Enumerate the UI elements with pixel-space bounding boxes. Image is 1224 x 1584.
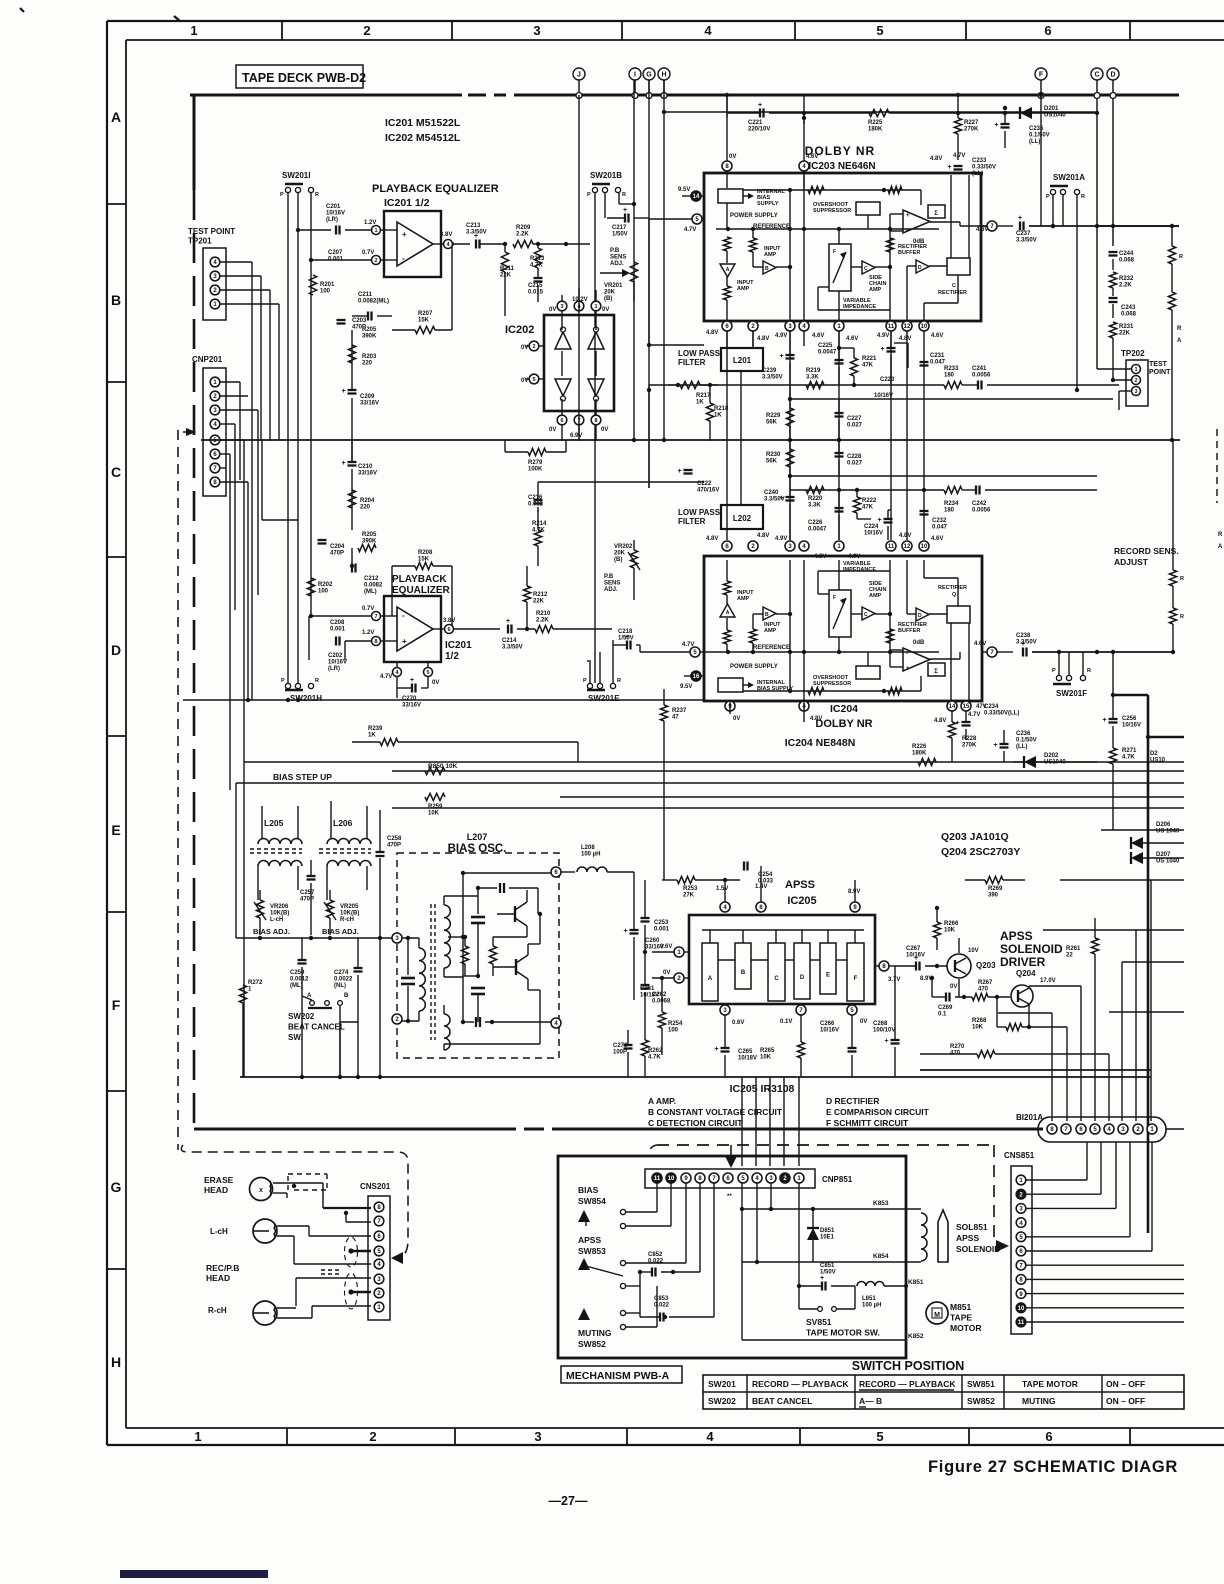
svg-text:EQUALIZER: EQUALIZER [392,585,451,596]
IC203 dolby box [704,173,981,321]
svg-text:BIAS ADJ.: BIAS ADJ. [253,927,290,936]
svg-text:C: C [864,266,868,272]
wire APSS out [894,966,896,1020]
svg-text:DRIVER: DRIVER [1000,955,1046,969]
svg-text:CNS201: CNS201 [360,1182,391,1191]
IC203 C rectifier box [947,258,970,275]
svg-text:R279: R279 [528,460,543,466]
svg-text:CNP851: CNP851 [822,1175,853,1184]
arrow into CNS201 pin5 [391,1252,403,1264]
svg-text:IC202: IC202 [505,324,534,336]
page border outer frame [107,20,1224,22]
svg-text:POINT: POINT [1149,369,1171,376]
svg-text:**: ** [727,1194,732,1200]
svg-text:0.1/50V: 0.1/50V [1029,133,1050,139]
svg-text:3.3K: 3.3K [806,375,819,381]
svg-text:R: R [1218,532,1223,538]
svg-text:470P: 470P [330,551,344,557]
svg-text:SW853: SW853 [578,1246,606,1256]
dashed shield box heads [181,1145,408,1257]
row ticks left [107,203,126,205]
svg-text:3.7V: 3.7V [888,977,900,983]
svg-text:IMPEDANCE: IMPEDANCE [843,304,876,310]
svg-text:4.9V: 4.9V [877,333,889,339]
svg-text:11: 11 [1018,1320,1025,1326]
node D top terminal [1107,68,1119,80]
node C top terminal [1091,68,1103,80]
svg-text:27K: 27K [683,893,695,899]
svg-text:4.6V: 4.6V [976,227,988,233]
svg-text:C267: C267 [906,946,921,952]
svg-text:C227: C227 [847,416,862,422]
svg-text:+: + [758,102,762,109]
svg-text:10/18V: 10/18V [738,1056,757,1062]
svg-text:4.8V: 4.8V [757,533,769,539]
svg-text:E: E [826,973,830,979]
inductor L201 box [721,348,763,371]
svg-text:R217: R217 [696,393,711,399]
svg-text:VR205: VR205 [340,904,359,910]
connector CNS851 [1011,1166,1032,1334]
svg-text:+: + [342,388,346,395]
svg-text:0.0047: 0.0047 [808,527,827,533]
svg-text:TEST: TEST [1149,361,1168,368]
svg-text:180K: 180K [912,751,927,757]
svg-text:10: 10 [1018,1306,1025,1312]
svg-text:1K: 1K [714,413,722,419]
IC203 variable impedance loop [818,286,829,288]
svg-text:F: F [1039,72,1044,79]
svg-text:+: + [402,637,407,646]
svg-text:R231: R231 [1119,324,1134,330]
svg-text:C: C [774,976,779,982]
svg-text:DOLBY NR: DOLBY NR [815,718,872,730]
svg-text:4.6V: 4.6V [931,536,943,542]
wire vertical G bus [648,80,650,488]
svg-text:+: + [780,495,784,502]
node H top terminal [658,68,670,80]
wire left col connects [648,219,650,345]
wire bus horizontals above BI201A [1043,929,1184,931]
svg-text:PLAYBACK EQUALIZER: PLAYBACK EQUALIZER [372,183,499,195]
svg-text:4: 4 [704,23,712,38]
svg-text:R266: R266 [944,921,959,927]
svg-text:11: 11 [888,324,895,330]
svg-text:100K: 100K [528,467,543,473]
wire IC203 pin stems down [726,331,728,346]
svg-text:+: + [623,207,627,214]
svg-text:IC205: IC205 [787,895,816,907]
svg-text:C253: C253 [654,920,669,926]
svg-text:33/16V: 33/16V [360,401,379,407]
bias osc cap C mid top [477,888,479,914]
IC204 dolby box [704,556,982,701]
op-amp IC201a triangle [397,222,433,266]
wire F vertical [1040,95,1042,226]
svg-text:C240: C240 [764,490,779,496]
wire bus y226 right [1097,225,1179,227]
svg-text:TAPE: TAPE [950,1313,972,1323]
svg-text:RECORD SENS.: RECORD SENS. [1114,546,1179,556]
svg-text:6.9V: 6.9V [570,433,582,439]
svg-text:C: C [864,612,868,618]
IC202 box [544,315,614,411]
svg-text:R239: R239 [368,726,383,732]
svg-text:C228: C228 [847,454,862,460]
svg-text:0.047: 0.047 [932,525,948,531]
bias osc vertical 463 [462,873,464,1022]
svg-text:C852: C852 [648,1252,663,1258]
svg-text:R-cH: R-cH [208,1306,227,1315]
svg-text:+: + [1103,717,1107,724]
svg-text:R: R [1177,326,1182,332]
svg-text:+: + [506,618,510,625]
svg-text:B: B [111,292,121,308]
svg-text:MUTING: MUTING [1022,1396,1056,1406]
svg-text:C268: C268 [873,1021,888,1027]
svg-text:F: F [112,997,121,1013]
svg-text:+: + [780,353,784,360]
IC204 right verticals [950,623,952,701]
svg-text:LOW PASS: LOW PASS [678,508,721,517]
svg-text:(B): (B) [604,296,612,302]
svg-text:IC203 NE646N: IC203 NE646N [808,161,875,172]
wire mid connects to bias rows [577,742,579,762]
svg-text:R: R [1087,668,1091,674]
wire solenoid drop [905,1262,907,1340]
switch SW852 [620,1310,625,1315]
svg-text:0.068: 0.068 [1119,258,1135,264]
svg-text:5: 5 [532,377,535,383]
svg-text:-: - [906,228,908,234]
connector BI201A [1038,1117,1166,1142]
svg-text:3: 3 [534,1429,541,1444]
svg-text:C254: C254 [758,872,773,878]
svg-text:4.8V: 4.8V [757,336,769,342]
left dashed shield line [177,430,179,1150]
svg-text:4.7V: 4.7V [684,227,696,233]
svg-text:VR206: VR206 [270,904,289,910]
svg-text:SENS: SENS [610,255,626,261]
svg-text:0V: 0V [663,970,670,976]
svg-text:100 µH: 100 µH [581,852,600,858]
svg-text:10K: 10K [972,1025,984,1031]
svg-text:0V: 0V [860,1019,867,1025]
wire verticals into CNP851 from above [741,1077,743,1166]
svg-text:C274: C274 [334,970,349,976]
svg-text:4.7V: 4.7V [953,153,965,159]
long bus y476 [790,475,1097,477]
svg-text:C265: C265 [738,1049,753,1055]
wire mid horizontals [262,519,298,521]
bias osc cap C mid bottom [471,987,485,990]
svg-text:IC201 M51522L: IC201 M51522L [385,117,461,129]
svg-text:470P: 470P [300,897,314,903]
svg-text:D2: D2 [1150,751,1158,757]
svg-text:R254: R254 [668,1021,683,1027]
wire REC head pin3 [296,1277,371,1279]
svg-text:PLAYBACK: PLAYBACK [392,574,447,585]
svg-text:IC204: IC204 [830,703,858,715]
svg-text:+: + [820,1275,824,1282]
svg-text:ADJ.: ADJ. [604,587,618,593]
IC204 pin 7 right [987,647,997,657]
svg-text:L-cH: L-cH [270,917,283,923]
svg-text:2.2K: 2.2K [516,232,529,238]
svg-text:SUPPRESSOR: SUPPRESSOR [813,208,851,214]
svg-text:+: + [342,460,346,467]
svg-text:C258: C258 [387,836,402,842]
IC202 pins bottom [557,415,567,425]
svg-text:RECTIFIER: RECTIFIER [938,290,967,296]
wire vertical H bus [663,80,665,112]
svg-text:100/10V: 100/10V [873,1028,895,1034]
svg-text:4.6V: 4.6V [806,154,818,160]
svg-text:0V: 0V [950,984,957,990]
svg-text:R209: R209 [516,225,531,231]
svg-text:B: B [741,970,746,976]
svg-text:D: D [918,265,922,271]
svg-text:P: P [1052,668,1056,674]
svg-text:ERASE: ERASE [204,1175,234,1185]
svg-text:SW854: SW854 [578,1196,606,1206]
svg-text:R267: R267 [978,980,993,986]
svg-text:6: 6 [1045,1429,1052,1444]
svg-text:3.3/50V: 3.3/50V [762,375,783,381]
svg-text:A AMP.: A AMP. [648,1096,676,1106]
wire row C2 horizontals [790,489,944,491]
capacitor C223 [887,347,896,349]
svg-text:D851: D851 [820,1228,835,1234]
svg-text:14: 14 [949,704,956,710]
svg-text:4.8V: 4.8V [934,718,946,724]
cut-off column dash right edge [1216,429,1218,503]
svg-text:C224: C224 [864,524,879,530]
svg-text:HEAD: HEAD [204,1185,228,1195]
connector CNP851 [645,1169,815,1188]
svg-text:220: 220 [362,361,373,367]
svg-text:R230: R230 [766,452,781,458]
svg-text:0.1V: 0.1V [780,1019,792,1025]
svg-text:SW201: SW201 [708,1379,736,1389]
svg-text:C: C [1094,72,1099,79]
switch SW853 [620,1260,625,1265]
svg-text:17.0V: 17.0V [1040,978,1056,984]
wire heavy corner right [1112,652,1114,695]
svg-text:C204: C204 [330,544,345,550]
svg-text:10K: 10K [760,1055,772,1061]
svg-text:E COMPARISON CIRCUIT: E COMPARISON CIRCUIT [826,1107,930,1117]
svg-text:+: + [678,468,682,475]
svg-text:IMPEDANCE: IMPEDANCE [843,567,876,573]
svg-text:R: R [315,678,319,684]
connector CNP201 [203,368,226,496]
svg-text:0.0047: 0.0047 [818,350,837,356]
svg-text:15K: 15K [418,318,430,324]
svg-text:SW.: SW. [288,1033,303,1042]
IC204 sigma box [928,663,945,676]
svg-text:R220: R220 [808,496,823,502]
IC204 input amp A [723,630,730,644]
svg-text:MOTOR: MOTOR [950,1323,981,1333]
svg-text:A: A [708,976,713,982]
svg-text:2: 2 [374,258,377,264]
svg-text:+: + [1021,641,1025,648]
IC204 pins top row [722,541,732,551]
svg-text:C256: C256 [1122,716,1137,722]
svg-text:C214: C214 [502,638,517,644]
svg-text:A: A [726,610,730,616]
svg-text:3: 3 [1134,389,1137,395]
svg-text:6: 6 [560,418,563,424]
wire shield dashes [321,1269,342,1271]
op-amp IC201b box [384,596,441,662]
svg-text:0.047: 0.047 [930,360,946,366]
connector TP201 [203,248,226,320]
svg-text:+: + [1018,215,1022,222]
svg-text:22K: 22K [1119,331,1131,337]
IC203 pin3 internal line [789,190,791,321]
svg-text:0.0012: 0.0012 [290,977,309,983]
svg-text:—27—: —27— [549,1494,588,1508]
svg-text:L201: L201 [733,356,752,365]
svg-text:POWER SUPPLY: POWER SUPPLY [730,213,778,219]
svg-text:47: 47 [672,715,679,721]
svg-text:G: G [111,1179,122,1195]
svg-text:16: 16 [693,674,700,680]
svg-text:47K: 47K [862,505,874,511]
svg-text:R: R [1180,614,1184,620]
svg-text:R: R [622,192,626,198]
svg-text:C211: C211 [358,292,373,298]
svg-text:R203: R203 [362,354,377,360]
APSS pins top [720,902,730,912]
svg-text:C243: C243 [1121,305,1136,311]
svg-text:P: P [583,678,587,684]
svg-text:470P: 470P [387,843,401,849]
svg-text:0V: 0V [602,307,609,313]
transistor Q203 [947,954,971,978]
APSS inner wires [702,929,864,931]
svg-text:C221: C221 [748,120,763,126]
svg-text:D207: D207 [1156,852,1171,858]
svg-text:3.3K: 3.3K [808,503,821,509]
IC202 pins left [529,341,539,351]
svg-text:0.0082(ML): 0.0082(ML) [358,299,389,305]
wire driver outputs right [1122,961,1184,963]
svg-text:10: 10 [668,1176,675,1182]
TAPE DECK PWB-D2 label box [236,65,363,88]
wire right-edge bus lines [1131,842,1137,844]
svg-text:C232: C232 [932,518,947,524]
svg-text:3.8V: 3.8V [443,618,455,624]
op-amp IC201a box [384,211,441,277]
svg-text:BIAS ADJ.: BIAS ADJ. [322,927,359,936]
svg-text:SW201B: SW201B [590,171,622,180]
svg-text:K854: K854 [873,1253,889,1260]
IC203 pin 7 right [987,221,997,231]
svg-text:390K: 390K [362,334,377,340]
svg-text:BI201A: BI201A [1016,1113,1043,1122]
main frame left edge dashed [193,95,196,190]
svg-text:FILTER: FILTER [678,517,706,526]
svg-text:+: + [881,346,885,353]
svg-text:C239: C239 [762,368,777,374]
svg-text:AMP: AMP [737,596,750,602]
svg-text:VR201: VR201 [604,283,623,289]
svg-text:ON – OFF: ON – OFF [1106,1379,1145,1389]
svg-text:(B): (B) [614,557,622,563]
svg-text:TP201: TP201 [188,237,212,246]
svg-text:(LL): (LL) [1029,139,1040,145]
svg-text:4.7V: 4.7V [968,712,980,718]
wire driver links [998,1012,1052,1014]
svg-text:C237: C237 [1016,231,1031,237]
svg-text:C226: C226 [808,520,823,526]
svg-text:C203: C203 [352,318,367,324]
bias osc pin 4 [551,1018,561,1028]
svg-text:4.9V: 4.9V [775,536,787,542]
svg-text:10/16V: 10/16V [328,660,347,666]
svg-text:C217: C217 [612,225,627,231]
svg-text:22K: 22K [533,599,545,605]
svg-text:0.027: 0.027 [847,423,863,429]
svg-text:(ML): (ML) [364,589,377,595]
svg-text:(ML): (ML) [290,983,303,989]
svg-text:+: + [948,164,952,171]
svg-text:C212: C212 [364,576,379,582]
node J top terminal [573,68,585,80]
svg-text:20K: 20K [604,290,616,296]
svg-text:R225: R225 [868,120,883,126]
svg-text:I: I [634,72,636,79]
svg-text:SW201H: SW201H [290,694,322,703]
APSS inner blocks [702,943,718,1001]
svg-text:R261: R261 [1066,946,1081,952]
svg-text:SW202: SW202 [708,1396,736,1406]
svg-text:0dB: 0dB [913,640,925,646]
svg-text:4.8V: 4.8V [899,336,911,342]
svg-text:SW852: SW852 [967,1396,995,1406]
svg-text:-: - [906,651,908,657]
IC204 amp C [862,607,875,620]
svg-text:J: J [577,72,581,79]
svg-text:C269: C269 [938,1005,953,1011]
IC203 main op amp [903,210,930,233]
svg-text:3: 3 [560,304,563,310]
svg-text:+: + [625,634,629,641]
IC203 sigma box [928,205,945,218]
svg-text:4.8V: 4.8V [706,536,718,542]
svg-text:0.1/50V: 0.1/50V [1016,738,1037,744]
svg-text:4.9V: 4.9V [775,333,787,339]
svg-text:0.001: 0.001 [654,927,670,933]
svg-text:C244: C244 [1119,251,1134,257]
IC204 pin 16 left [691,671,701,681]
wire CNP201 leads [220,381,240,383]
svg-text:+: + [906,213,910,219]
svg-text:R272: R272 [248,980,263,986]
svg-text:C262: C262 [652,992,667,998]
svg-text:100: 100 [318,589,329,595]
svg-text:33/16V: 33/16V [402,703,421,709]
svg-text:C270: C270 [402,696,417,702]
wire left vertical bus cluster [243,440,245,1077]
svg-text:C260: C260 [645,938,660,944]
svg-text:D: D [800,975,805,981]
svg-text:LOW PASS: LOW PASS [678,349,721,358]
svg-text:D RECTIFIER: D RECTIFIER [826,1096,879,1106]
